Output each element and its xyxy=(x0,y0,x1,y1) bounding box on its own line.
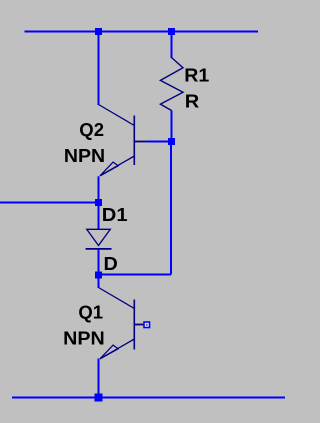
svg-text:NPN: NPN xyxy=(64,146,105,166)
node junction top-left xyxy=(95,28,102,35)
svg-text:Q1: Q1 xyxy=(78,303,103,323)
svg-text:D: D xyxy=(104,254,118,274)
transistor Q1 base bar xyxy=(133,300,135,350)
wire right vertical (top junction through R1 to base node) xyxy=(171,32,173,59)
node junction B (diode cathode) xyxy=(95,272,102,279)
transistor Q2 emitter arrow xyxy=(100,162,118,176)
pin Q1 base open square xyxy=(144,322,150,328)
transistor Q1 base lead xyxy=(134,324,144,326)
transistor Q2 collector xyxy=(99,105,135,126)
wire bottom rail xyxy=(12,397,285,399)
svg-text:D1: D1 xyxy=(102,205,128,225)
node junction A (diode anode) xyxy=(95,199,102,206)
transistor Q1 collector xyxy=(99,288,135,309)
wire left horizontal input xyxy=(0,202,99,204)
wire top rail xyxy=(25,31,259,33)
wire right vertical base node to node B xyxy=(170,142,172,275)
svg-text:NPN: NPN xyxy=(63,329,105,349)
node junction Q2 base xyxy=(168,138,175,145)
wire left vertical (top junction to Q2 collector) xyxy=(98,32,100,106)
wire Q1 emitter to bottom rail xyxy=(98,359,100,398)
wire R1 bottom lead to base node xyxy=(171,111,173,142)
wire Q2 emitter down to node A xyxy=(98,176,100,202)
wire node B to Q1 collector xyxy=(98,275,100,288)
transistor Q2 base lead xyxy=(134,141,150,143)
svg-text:R1: R1 xyxy=(184,66,209,86)
svg-text:Q2: Q2 xyxy=(79,120,104,140)
wire base node to Q2 base xyxy=(148,141,172,143)
transistor Q2 base bar xyxy=(133,116,135,166)
svg-text:R: R xyxy=(185,92,200,112)
wire node A to diode xyxy=(98,203,100,231)
node junction top-right xyxy=(168,28,175,35)
transistor Q1 emitter xyxy=(100,339,134,359)
transistor Q2 emitter xyxy=(100,156,134,176)
diode D1 xyxy=(87,229,111,245)
wire node B right horizontal xyxy=(99,274,172,276)
resistor R1 xyxy=(160,58,183,111)
wire diode cathode to node B xyxy=(98,249,100,275)
pin Q1 base inner mark xyxy=(146,324,148,326)
diode D1 cathode bar xyxy=(86,248,112,250)
transistor Q1 emitter arrow xyxy=(100,345,118,359)
node junction bottom xyxy=(95,394,103,402)
